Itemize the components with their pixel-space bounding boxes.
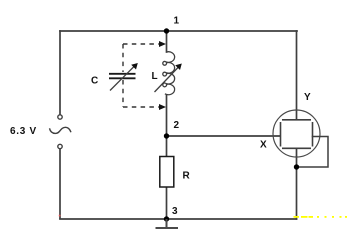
arrow to node2 side xyxy=(159,104,166,110)
tube internal square bottom xyxy=(282,147,311,149)
wire branch node1 to inductor xyxy=(166,31,168,52)
svg-text:3: 3 xyxy=(172,206,178,217)
wire right tab to wrap xyxy=(297,137,328,168)
tube left bar xyxy=(280,122,282,147)
svg-text:R: R xyxy=(183,171,191,182)
svg-text:C: C xyxy=(91,76,98,87)
tube internal square top xyxy=(282,119,311,121)
node cathode junction xyxy=(294,164,299,169)
capacitor C dashed branch top xyxy=(123,44,160,107)
wire cathode lead down xyxy=(296,149,298,220)
resistor R xyxy=(160,157,174,188)
wire top rail xyxy=(60,30,297,32)
svg-text:L: L xyxy=(152,71,158,82)
ac source 6.3 V xyxy=(50,115,72,149)
wire bottom rail xyxy=(60,218,297,220)
node 2 xyxy=(164,133,169,138)
node 1 xyxy=(164,28,169,33)
yellow highlight dashes on bottom right wire xyxy=(294,216,347,218)
inductor L variable arrow xyxy=(155,64,182,93)
node 3 xyxy=(164,216,169,221)
tube right bar xyxy=(312,122,314,147)
capacitor C plates xyxy=(109,74,136,79)
wire inductor to node 2 xyxy=(166,95,168,157)
red artifact pixel at bottom-left corner xyxy=(59,215,61,217)
svg-text:Y: Y xyxy=(304,92,311,103)
svg-text:2: 2 xyxy=(174,120,180,131)
wire left rail upper xyxy=(59,31,61,114)
svg-text:6.3 V: 6.3 V xyxy=(10,126,37,137)
svg-text:1: 1 xyxy=(174,16,180,27)
wire resistor to node 3 xyxy=(166,187,168,219)
tube device envelope xyxy=(273,110,320,157)
svg-text:X: X xyxy=(260,140,267,151)
wire node 2 to X xyxy=(167,135,281,137)
arrow to node1 side xyxy=(159,41,166,47)
inductor L xyxy=(163,52,175,95)
wire right rail xyxy=(296,31,298,120)
wire left rail lower xyxy=(59,149,61,219)
ground xyxy=(156,219,179,228)
capacitor C variable arrow xyxy=(110,63,138,91)
